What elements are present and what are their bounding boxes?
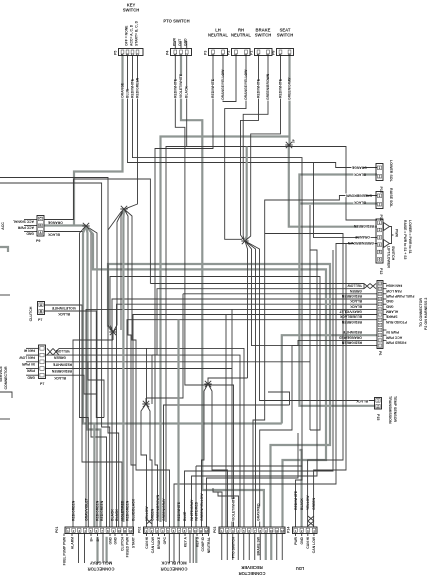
P01 pin label CLUTCH: [120, 536, 124, 550]
svg-text:GND: GND: [27, 375, 35, 379]
svg-text:ALARM: ALARM: [70, 537, 74, 549]
twisted pair symbol LDU CAN: [308, 516, 314, 526]
wire lift pin4 riser: [314, 163, 378, 238]
wire RH B ORANGE/YELLOW: [225, 56, 246, 240]
svg-text:SWITCH: SWITCH: [255, 33, 272, 38]
P6 pin label FAN LOW: [385, 289, 401, 293]
wire label RED/WHITE: [52, 362, 72, 366]
P6 wire label RED/WHITE: [342, 330, 362, 334]
svg-text:GREEN/BROWN: GREEN/BROWN: [156, 494, 160, 521]
P02 pin label CAN HI: [145, 537, 149, 549]
wire label ORANGE: [47, 220, 63, 224]
P01 pin lead START: [132, 534, 134, 537]
svg-text:FAN HIGH: FAN HIGH: [385, 284, 402, 288]
wire gray tap into S4: [245, 147, 246, 241]
connector SERVICE: [39, 345, 46, 379]
svg-text:FAN LOW: FAN LOW: [19, 355, 35, 359]
svg-text:11: 11: [199, 529, 202, 533]
svg-text:P12: P12: [379, 268, 383, 274]
PTO note lead A: [174, 41, 176, 49]
wire MCU black GREEN/GRAY: [164, 405, 290, 527]
svg-text:ACC SIGNAL: ACC SIGNAL: [13, 220, 34, 224]
pin note OUT: [178, 38, 182, 46]
P01 wire label RED/GREEN: [125, 500, 129, 521]
wire BRAKE B GREEN/BROWN: [243, 56, 268, 240]
P01 pin lead CLUTCH: [121, 534, 123, 537]
wire S1 ray to service: [86, 226, 97, 369]
pin label GND: [27, 375, 35, 379]
P14 pin lead CAN LOW: [313, 534, 315, 537]
P01 pin label GND: [108, 536, 112, 544]
svg-text:SWITCH: SWITCH: [277, 33, 294, 38]
P02 wire label RED/WHITE: [177, 501, 181, 521]
wire trunk x333: [332, 250, 334, 440]
P02 pin lead OPC: [164, 534, 166, 537]
svg-text:OUT: OUT: [178, 38, 182, 46]
svg-text:RED/WHITE: RED/WHITE: [177, 501, 181, 521]
wire gray branch seat B: [161, 137, 290, 523]
label PWR: [395, 229, 399, 237]
wire LH B to RH A link: [223, 56, 236, 102]
P02 pin lead CAN HI: [146, 534, 148, 537]
title SERVICE CONNECTOR: [0, 366, 3, 382]
P02 pin lead BRAKE: [158, 534, 160, 537]
svg-text:GREEN: GREEN: [349, 289, 362, 293]
P02 wire label YELLOW: [145, 506, 149, 521]
P03 pin lead 12: [281, 534, 283, 561]
svg-text:RED/GREEN: RED/GREEN: [341, 320, 362, 324]
P14 pin label GND: [300, 536, 304, 544]
svg-text:RED/GREEN: RED/GREEN: [341, 341, 362, 345]
P03 pin lead 1: [221, 534, 223, 561]
P01 pin label B+: [96, 537, 100, 541]
P14 wire label GREEN: [312, 497, 316, 510]
P02 pin label OPC: [163, 536, 167, 544]
P6 wire label RED/GREEN: [341, 320, 362, 324]
key switch position notes: [125, 25, 129, 46]
svg-text:NEUTRAL: NEUTRAL: [207, 537, 211, 553]
svg-text:LDU: LDU: [296, 566, 305, 571]
wire label ORANGE/YELLOW: [221, 69, 225, 101]
P14 pin label CAN LOW: [312, 536, 316, 553]
P01 pin lead B+: [97, 534, 99, 537]
pin label ACC SIGNAL: [13, 220, 34, 224]
wire SEAT B branch low: [268, 392, 290, 405]
wire P6 RED/GREEN p11: [183, 293, 377, 295]
P14 wire label RED/WHITE: [294, 490, 298, 510]
P6 pin stub SPARE: [383, 314, 387, 316]
svg-text:BLACK: BLACK: [353, 172, 365, 176]
svg-text:CAN LOW: CAN LOW: [151, 536, 155, 553]
svg-text:P03: P03: [213, 527, 217, 533]
P01 wire label RED/GREEN: [95, 500, 99, 521]
wire GND row pin10: [112, 299, 377, 527]
svg-text:BLACK: BLACK: [47, 232, 59, 236]
svg-text:WHITE/RED: WHITE/RED: [194, 501, 198, 521]
svg-text:PTO SWITCH: PTO SWITCH: [163, 19, 189, 24]
P6 pin label PWR 5V: [385, 330, 399, 334]
svg-text:KEY S: KEY S: [195, 536, 199, 547]
P03 pin lead 8: [259, 534, 261, 561]
P6 wire label RED/GREEN: [341, 294, 362, 298]
pin label GND: [26, 232, 34, 236]
svg-text:BLACK: BLACK: [185, 86, 189, 98]
svg-text:WHITE/GRAY: WHITE/GRAY: [190, 499, 194, 521]
P01 pin lead ALARM: [71, 534, 73, 537]
svg-text:CONNECTOR: CONNECTOR: [239, 571, 266, 576]
P01 pin label FUEL PUMP PWR: [62, 536, 66, 565]
svg-text:P14: P14: [287, 527, 291, 533]
wire receiver lead b: [218, 492, 239, 527]
P01 pin lead FUSED PWR: [126, 534, 128, 537]
svg-text:GREEN/GRAY: GREEN/GRAY: [162, 498, 166, 521]
svg-text:11: 11: [275, 529, 278, 533]
wire BRAKE A RED/WHITE: [241, 56, 259, 240]
svg-text:ALARM: ALARM: [386, 310, 398, 314]
P6 wire label ORANGE/RED: [338, 335, 362, 339]
wire gray riser P6 RED/WHITE: [282, 335, 377, 423]
P03 pin lead 9: [265, 534, 267, 561]
svg-text:2: 2: [379, 174, 381, 178]
svg-text:BLACK: BLACK: [356, 399, 368, 403]
PTO note lead C: [186, 41, 188, 49]
svg-text:CAN HI: CAN HI: [306, 537, 310, 549]
svg-text:RED/GREEN: RED/GREEN: [353, 224, 374, 228]
svg-text:TEMP SENSOR: TEMP SENSOR: [393, 396, 397, 422]
wire P6 GREEN: [152, 289, 364, 355]
P6 pin label ALARM: [386, 310, 398, 314]
wire label RED/WHITE: [257, 78, 261, 98]
pin stub FAN HI: [26, 347, 39, 349]
P6 pin label GND: [385, 299, 393, 303]
wire S4 fan 2: [245, 241, 377, 346]
P01 wire label RED/GREEN: [100, 500, 104, 521]
wire lift pin1 feed: [166, 147, 377, 523]
wire label YELLOW: [55, 349, 71, 353]
svg-text:P6: P6: [378, 351, 382, 355]
title RAISE SOL: [389, 188, 393, 208]
title ACC: [1, 222, 5, 230]
wire P6 RED/GREEN p6: [127, 320, 377, 527]
wire service green branch: [151, 355, 153, 404]
wire label GREEN/GRAY: [288, 77, 292, 101]
svg-text:ACC PWR: ACC PWR: [17, 226, 34, 230]
P02 pin lead COMP ID: [202, 534, 204, 537]
splice S1: [82, 223, 89, 229]
wire MCU gray RED/GREEN 1: [73, 340, 113, 527]
pin note PWR: [172, 38, 176, 46]
P03 pin lead 10: [270, 534, 272, 561]
svg-text:GREEN: GREEN: [312, 497, 316, 510]
svg-text:P4: P4: [166, 51, 170, 55]
P02 gray stub: [195, 537, 197, 563]
svg-text:GREEN: GREEN: [53, 356, 66, 360]
svg-text:CAN LOW: CAN LOW: [312, 536, 316, 553]
connector P02 MCU BLACK: [144, 527, 210, 534]
wire S7 fan3: [124, 209, 170, 527]
P02 pin label KEY S: [195, 536, 199, 547]
note TO CONNECTOR P2 ON HARNESS 2: [419, 298, 423, 327]
P01 wire label RED/GREEN: [71, 500, 75, 521]
wire label BLACK: [353, 200, 365, 204]
wire S7 fan1: [121, 209, 124, 330]
svg-text:BRAKE: BRAKE: [157, 536, 161, 549]
P02 pin label CAN LOW: [151, 536, 155, 553]
svg-text:GREEN/BROWN: GREEN/BROWN: [266, 73, 270, 100]
svg-text:2: 2: [379, 202, 381, 206]
label P01: [55, 527, 59, 533]
label P6: [378, 351, 382, 355]
title RECEIVER CONNECTOR: [241, 565, 262, 570]
connector P03 RECEIVER: [219, 527, 285, 534]
P01 pin label ALARM: [70, 537, 74, 549]
P02 wire label WHITE/GRAY: [190, 499, 194, 521]
label P12: [379, 268, 383, 274]
P02 wire label WHITE/RED: [194, 501, 198, 521]
svg-text:11: 11: [123, 529, 126, 533]
svg-text:1: 1: [379, 221, 381, 225]
svg-text:RAISE = PWR to S1 + S3: RAISE = PWR to S1 + S3: [403, 220, 407, 259]
wire label RED/WHITE: [173, 78, 177, 98]
wire S3 fan2: [113, 211, 123, 332]
svg-text:RED/GREEN: RED/GREEN: [71, 500, 75, 521]
svg-text:ORANGE: ORANGE: [351, 165, 367, 169]
P02 pin label COMP ID: [201, 536, 205, 551]
wire label RED/GREEN: [51, 369, 72, 373]
wire S4 fan 1: [245, 241, 248, 378]
P03 pin lead 2: [226, 534, 228, 561]
wire S5 fan 1: [141, 404, 147, 527]
pin label ACC PWR: [17, 226, 34, 230]
P14 pin lead GND: [301, 534, 303, 537]
title CLUTCH: [29, 306, 33, 321]
svg-text:YELLOW: YELLOW: [306, 495, 310, 510]
wire label RED/GREEN: [353, 224, 374, 228]
svg-text:FUSED PWR: FUSED PWR: [385, 341, 406, 345]
svg-text:RED/WHITE: RED/WHITE: [211, 78, 215, 98]
P14 pin label CAN HI: [306, 537, 310, 549]
svg-text:P7: P7: [38, 318, 42, 322]
svg-text:BLACK: BLACK: [300, 498, 304, 510]
P01 pin lead FUEL PUMP PWR: [63, 534, 65, 537]
svg-text:6: 6: [379, 258, 381, 262]
wire ACC PWR to splice S1: [44, 224, 86, 226]
svg-text:P01: P01: [55, 527, 59, 533]
wire label BLACK: [54, 376, 67, 380]
wire label BLACK: [356, 399, 369, 403]
wire S6 fan 2: [208, 384, 228, 527]
svg-text:LOWER SOL: LOWER SOL: [389, 160, 393, 183]
wire receiver lead a: [213, 488, 222, 527]
P03 pin lead 3: [232, 534, 234, 561]
wire service YELLOW: [59, 348, 244, 527]
twisted pair symbol service CAN: [47, 348, 59, 355]
connector CLUTCH: [38, 302, 45, 315]
svg-text:RED/WHITE: RED/WHITE: [257, 78, 261, 98]
svg-text:1: 1: [379, 194, 381, 198]
svg-text:GREEN/BROWN: GREEN/BROWN: [345, 193, 372, 197]
pin label FAN HI: [24, 349, 35, 353]
wire service yellow branch: [146, 348, 148, 404]
svg-text:LOWER = PWR to S1: LOWER = PWR to S1: [408, 220, 412, 254]
wire key C RED/WHITE: [133, 56, 303, 528]
wire S7 fan2: [124, 209, 136, 465]
P6 wire label BLACK: [350, 304, 362, 308]
svg-text:SP: SP: [292, 139, 296, 143]
label P11: [379, 215, 383, 221]
connector P6 harness: [377, 281, 383, 349]
svg-text:12: 12: [205, 529, 209, 533]
svg-text:RAISE SOL: RAISE SOL: [389, 188, 393, 208]
svg-text:KEY A: KEY A: [183, 536, 187, 547]
P03 pin label BRAKE SW: [257, 536, 261, 555]
wire S5 stem: [145, 398, 147, 404]
title MCU GRAY CONNECTOR: [90, 561, 113, 566]
svg-text:RECEIVER: RECEIVER: [241, 565, 262, 570]
wire left edge stub 4: [0, 418, 10, 420]
svg-text:BLACK: BLACK: [353, 200, 365, 204]
P6 pin stub PWR 5V: [383, 329, 387, 331]
P6 pin stub GND: [383, 298, 387, 300]
svg-text:YELLOW: YELLOW: [347, 284, 362, 288]
wire bus E thin: [110, 277, 320, 431]
svg-text:FUSED PWR: FUSED PWR: [125, 536, 129, 557]
connector P5 KEY SWITCH: [114, 49, 144, 56]
wire label GREEN/BROWN: [345, 193, 372, 197]
P6 wire label RED/GREEN: [341, 341, 362, 345]
svg-text:CLUTCH: CLUTCH: [120, 536, 124, 550]
wire service GREEN: [45, 355, 240, 527]
connector P1 BRAKE SWITCH: [250, 49, 273, 56]
connector P15 TRANSMISSION TEMP SENSOR: [375, 398, 382, 410]
pin label 5V PWR: [21, 362, 35, 366]
svg-text:GND: GND: [300, 536, 304, 544]
P03 pin lead 5: [243, 534, 245, 561]
svg-text:RED/WHITE: RED/WHITE: [173, 78, 177, 98]
svg-text:SWITCH: SWITCH: [391, 246, 395, 261]
P02 wire label GREEN/BROWN: [156, 494, 160, 521]
P03 pin lead 11: [276, 534, 278, 561]
svg-text:NEUTRAL: NEUTRAL: [208, 33, 228, 38]
svg-text:FAN HI: FAN HI: [24, 349, 35, 353]
wire P6 CAN twist feed: [363, 284, 365, 289]
svg-text:P5: P5: [114, 51, 118, 55]
P6 wire label BLACK: [350, 299, 362, 303]
wire S1 fan thin a: [80, 226, 89, 527]
svg-text:CONNECTOR: CONNECTOR: [4, 366, 8, 389]
connector P4 PTO SWITCH: [166, 49, 192, 56]
svg-text:LIFT/LOWER: LIFT/LOWER: [387, 246, 391, 268]
label P03: [213, 527, 217, 533]
svg-text:MCU BLACK: MCU BLACK: [161, 561, 186, 566]
svg-text:BLACK: BLACK: [350, 299, 362, 303]
svg-text:PWR: PWR: [172, 38, 176, 46]
svg-text:CAN HI: CAN HI: [145, 537, 149, 549]
svg-text:P15: P15: [376, 414, 380, 420]
P03 pin lead 6: [248, 534, 250, 561]
title TRANSMISSION TEMP SENSOR: [388, 396, 392, 424]
svg-text:ACC= A, C, D: ACC= A, C, D: [130, 24, 134, 46]
svg-text:RED/WHITE: RED/WHITE: [131, 78, 135, 98]
svg-text:GRAY/RED: GRAY/RED: [257, 503, 261, 521]
P14 pin lead PWR: [295, 534, 297, 537]
splice S3: [109, 329, 116, 335]
svg-text:2: 2: [379, 228, 381, 232]
svg-text:FAN LOW: FAN LOW: [385, 289, 401, 293]
wire key B BLUE: [128, 56, 378, 168]
wire S4 fan 3: [245, 241, 256, 527]
svg-text:SWITCH: SWITCH: [123, 8, 140, 13]
wire ACC GND BLACK: [44, 226, 86, 232]
svg-text:10: 10: [270, 529, 274, 533]
P01 pin label START: [131, 536, 135, 548]
twisted pair symbol P6 CAN: [364, 284, 376, 289]
P03 pin label PTO SWITCH: [231, 536, 235, 558]
P03 pin lead 4: [237, 534, 239, 561]
P01 pin label B+: [89, 537, 93, 541]
wire MCU black unlabeled 2: [185, 440, 334, 527]
svg-text:ACC: ACC: [1, 222, 5, 230]
splice S6: [204, 381, 211, 387]
svg-text:RED/WHITE: RED/WHITE: [279, 78, 283, 98]
wire gray raise sol BLACK: [299, 202, 377, 204]
svg-text:OPC: OPC: [163, 536, 167, 544]
svg-text:BLACK: BLACK: [350, 304, 362, 308]
svg-text:PWR: PWR: [294, 536, 298, 544]
wire label VIOLET/WHITE: [51, 306, 76, 310]
P01 pin lead B+: [90, 534, 92, 537]
svg-text:ORANGE/YELLOW: ORANGE/YELLOW: [244, 69, 248, 100]
wire left edge feed a: [0, 178, 119, 528]
P6 pin label ACC PWR: [385, 335, 402, 339]
wire label BLACK: [185, 86, 189, 99]
P02 pin lead KEY S: [196, 534, 198, 537]
pin note GND: [184, 38, 188, 46]
svg-text:10: 10: [194, 529, 198, 533]
wire S6 fan 1: [202, 384, 209, 527]
P02 long stub x179.3: [178, 534, 180, 564]
wire left edge feed b: [0, 183, 110, 527]
svg-text:B+: B+: [89, 537, 93, 541]
svg-text:5V PWR: 5V PWR: [21, 362, 35, 366]
P02 wire label GREEN: [150, 508, 154, 521]
svg-text:ORANGE: ORANGE: [354, 235, 370, 239]
wire MCU black lead 10: [195, 466, 197, 527]
svg-text:GND: GND: [385, 299, 393, 303]
wire service rg branch: [96, 369, 98, 528]
svg-text:RED/WHITE: RED/WHITE: [294, 490, 298, 510]
wire ACC SIGNAL ORANGE: [44, 179, 150, 284]
twisted pair symbol P02 CAN: [147, 519, 153, 524]
P6 pin label FUEL PUMP PWR: [385, 294, 414, 298]
P02 pin lead KEY A: [184, 534, 186, 537]
wire key D RED/GREEN: [126, 56, 138, 209]
svg-text:B+: B+: [96, 537, 100, 541]
svg-text:P7: P7: [40, 382, 44, 386]
wire S3 fan1: [108, 212, 121, 332]
svg-text:BLUE/BLACK: BLUE/BLACK: [339, 315, 362, 319]
svg-text:P02: P02: [138, 527, 142, 533]
svg-text:PWR: PWR: [27, 369, 35, 373]
P6 pin label GND: [385, 304, 393, 308]
P01 pin label GND: [113, 536, 117, 544]
svg-text:P8: P8: [272, 51, 276, 55]
splice S7: [120, 206, 127, 212]
P03 wire label VIOLET/WHITE: [231, 496, 235, 521]
P01 long stub x103: [102, 534, 104, 564]
P6 pin label FUSED PWR: [385, 341, 406, 345]
P03 wire label GRAY/RED: [257, 503, 261, 522]
